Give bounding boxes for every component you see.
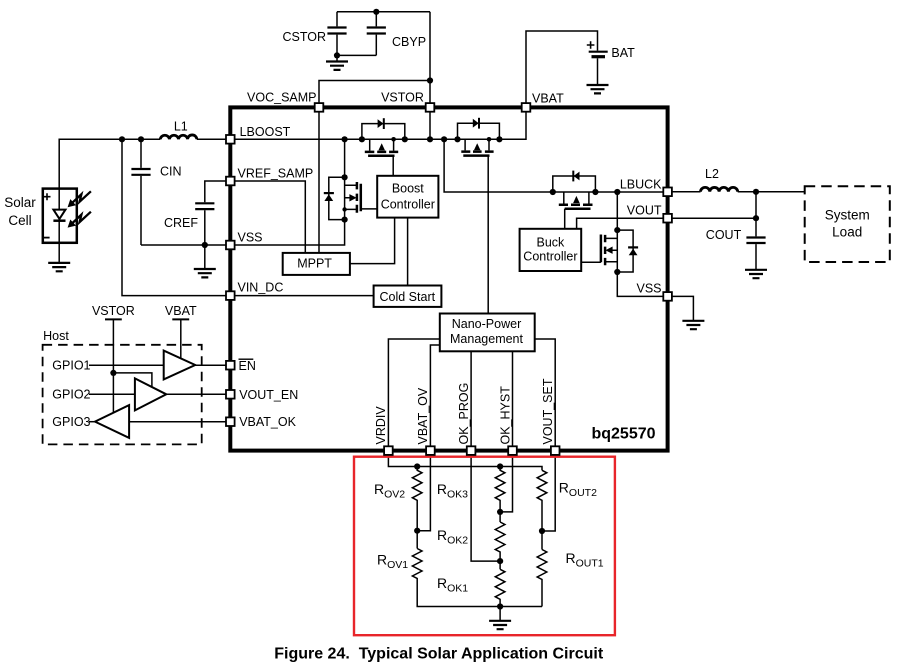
ground resistor network [499, 607, 501, 621]
wire VSS right to ground [668, 296, 694, 320]
pin VSTOR [426, 103, 435, 112]
svg-text:VSS: VSS [238, 231, 263, 245]
buffer U1 GPIO1 [164, 351, 196, 380]
svg-text:LBUCK: LBUCK [620, 177, 662, 191]
buffer U3 GPIO3 [95, 405, 129, 438]
ground below CSTOR [336, 55, 338, 61]
wire VOUT_SET from Nano-Power [535, 339, 556, 531]
wire VBAT_OK pin to buffer [129, 421, 230, 423]
pin EN [226, 361, 235, 370]
wire storage PMOS gate to Nano-Power [487, 156, 489, 314]
solar cell box [43, 189, 77, 243]
svg-text:Host: Host [43, 329, 69, 343]
svg-text:VOUT_SET: VOUT_SET [541, 378, 555, 444]
svg-text:Boost: Boost [392, 182, 424, 196]
host VSTOR supply stub [112, 319, 114, 412]
box MPPT [283, 253, 350, 275]
svg-text:Controller: Controller [381, 197, 435, 211]
svg-text:Buck: Buck [537, 235, 566, 249]
node buck feed junction on rail [441, 136, 447, 142]
ground below BAT [587, 85, 609, 93]
wire buck input feed from rail to LBUCK [444, 139, 667, 192]
svg-text:Cell: Cell [8, 213, 31, 228]
node CBYP top junction [373, 9, 379, 15]
box System Load dashed [805, 186, 890, 262]
pin VREF_SAMP [226, 177, 235, 186]
svg-text:BAT: BAT [611, 46, 635, 60]
solar cell plus sign [44, 193, 51, 200]
pin VBAT_OV [426, 446, 435, 455]
svg-text:Load: Load [832, 224, 862, 239]
wire CSTOR bottom link [337, 54, 376, 56]
transistor buck NMOS Q4 [581, 227, 620, 275]
node COUT top junction [753, 189, 759, 195]
resistor ROK2 [495, 522, 505, 569]
pin VRDIV [384, 446, 393, 455]
pin OK_HYST [508, 446, 517, 455]
wire OK_HYST from Nano-Power [500, 351, 512, 512]
resistor ROK3 [495, 467, 505, 523]
wire OK_PROG from Nano-Power [471, 351, 500, 561]
solar cell minus sign [44, 237, 50, 239]
pin LBUCK [663, 188, 672, 197]
svg-text:VIN_DC: VIN_DC [238, 281, 284, 295]
wire VBAT_OV from Nano-Power [417, 345, 440, 531]
capacitor CSTOR [336, 12, 338, 56]
inductor L2 [701, 187, 738, 191]
svg-text:EN: EN [239, 359, 256, 373]
svg-text:VOUT_EN: VOUT_EN [239, 388, 298, 402]
svg-text:LBOOST: LBOOST [240, 125, 291, 139]
svg-text:VOC_SAMP: VOC_SAMP [247, 91, 316, 105]
wire buck NMOS column to VSS pin [617, 192, 667, 296]
node ROV2 top junction [414, 463, 420, 469]
svg-text:VRDIV: VRDIV [374, 406, 388, 445]
wire VRDIV from Nano-Power [388, 339, 542, 470]
pin VOUT_SET [551, 446, 560, 455]
svg-text:COUT: COUT [706, 228, 742, 242]
box Buck Controller [520, 229, 582, 271]
solar light arrow 2 [68, 212, 91, 228]
solar cell photodiode [58, 189, 60, 243]
svg-text:VBAT: VBAT [532, 92, 564, 106]
svg-text:System: System [825, 207, 870, 222]
transistor buck PMOS Q3 [550, 171, 599, 229]
wire CSTOR/CBYP top rail [337, 11, 430, 13]
svg-text:bq25570: bq25570 [591, 426, 655, 443]
svg-text:Management: Management [450, 332, 523, 346]
node CREF/VSS junction [202, 242, 208, 248]
wire VSTOR to GPIO2 buffer supply [113, 373, 151, 387]
node MPPT switch top on rail [342, 136, 348, 142]
ground below COUT [745, 270, 767, 278]
wire L2 to System Load [738, 191, 805, 193]
node VSTOR rail junction [427, 136, 433, 142]
box Boost Controller [377, 176, 438, 218]
wire VBAT pin to battery [526, 31, 598, 107]
node ROK3/ROK2 junction [497, 509, 503, 515]
svg-text:Controller: Controller [523, 250, 577, 264]
svg-text:Figure 24. Typical Solar Appl: Figure 24. Typical Solar Application Cir… [274, 646, 604, 663]
pin OK_PROG [467, 446, 476, 455]
svg-text:VBAT_OK: VBAT_OK [239, 415, 296, 429]
node ROV2/ROV1 junction [414, 528, 420, 534]
red highlight box [354, 457, 615, 636]
transistor boost sync PMOS Q1 [359, 118, 408, 176]
svg-text:VSTOR: VSTOR [381, 91, 424, 105]
ground below solar cell [58, 243, 60, 263]
pin VOC_SAMP [315, 103, 324, 112]
svg-text:VBAT_OV: VBAT_OV [416, 387, 430, 444]
node CSTOR bottom junction [334, 52, 340, 58]
wire GPIO2 to buffer [89, 393, 135, 395]
svg-text:VREF_SAMP: VREF_SAMP [238, 167, 314, 181]
pin LBOOST [226, 135, 235, 144]
pin VBAT_OK [226, 417, 235, 426]
svg-text:OK_HYST: OK_HYST [498, 386, 512, 445]
node VOC_SAMP/VSTOR junction [427, 77, 433, 83]
wire VOUT to COUT node [668, 217, 756, 219]
svg-text:Cold Start: Cold Start [380, 290, 436, 304]
resistor ROK1 [495, 569, 505, 606]
wire VREF_SAMP to MPPT [230, 181, 305, 253]
svg-text:GPIO1: GPIO1 [52, 358, 90, 372]
node VSTOR branch dot [110, 370, 116, 376]
svg-text:L1: L1 [174, 120, 188, 134]
capacitor COUT [755, 192, 757, 270]
battery BAT [589, 51, 608, 53]
transistor MPPT sampling switch [324, 174, 377, 223]
resistor ROUT2 [537, 470, 547, 549]
svg-text:OK_PROG: OK_PROG [457, 383, 471, 445]
node ROK2/ROK1 junction [497, 558, 503, 564]
svg-text:GPIO3: GPIO3 [52, 415, 90, 429]
pin VOUT_EN [226, 390, 235, 399]
wire VSS left from CIN [141, 244, 230, 246]
resistor ROV1 [412, 549, 542, 607]
svg-text:CBYP: CBYP [392, 35, 426, 49]
capacitor CBYP [375, 12, 377, 56]
svg-text:L2: L2 [705, 167, 719, 181]
inductor L1 [160, 135, 197, 139]
host dashed box [43, 345, 202, 445]
pin VBAT [522, 103, 531, 112]
svg-text:Nano-Power: Nano-Power [452, 317, 521, 331]
svg-text:VSTOR: VSTOR [92, 304, 135, 318]
capacitor CIN [140, 139, 142, 245]
node buck NMOS drain on LBUCK wire [614, 189, 620, 195]
buffer U2 GPIO2 [135, 378, 166, 410]
wire VOC_SAMP drop to MPPT [318, 107, 320, 253]
wire buffer to EN pin [195, 364, 230, 366]
svg-text:GPIO2: GPIO2 [52, 387, 90, 401]
box Cold Start [374, 286, 442, 307]
wire GPIO1 to buffer [89, 364, 164, 366]
wire VSTOR column from top rail to VSTOR pin [429, 12, 431, 108]
pin VSS right [663, 292, 672, 301]
pin VSS left [226, 241, 235, 250]
wire MPPT to Boost Controller [350, 218, 395, 264]
svg-text:CSTOR: CSTOR [282, 30, 326, 44]
host VBAT supply stub [180, 319, 182, 358]
capacitor CREF [205, 181, 231, 269]
node ROUT2/ROUT1 junction [539, 528, 545, 534]
pin VOUT [663, 214, 672, 223]
wire VOC_SAMP to VSTOR node [319, 81, 430, 108]
node ROK3 top junction [497, 463, 503, 469]
diode buck NMOS body diode [617, 230, 638, 272]
svg-text:VOUT: VOUT [627, 203, 662, 217]
svg-text:VSS: VSS [636, 282, 661, 296]
transistor storage PMOS Q2 [454, 118, 502, 156]
wire Boost Controller to Cold Start [407, 218, 409, 286]
svg-text:VBAT: VBAT [165, 304, 197, 318]
node resistor network ground junction [497, 603, 503, 609]
wire VIN_DC branch [122, 139, 374, 295]
resistor ROV2 [412, 467, 422, 549]
wire VSS pin to MPPT switch source [230, 139, 344, 245]
svg-text:CIN: CIN [160, 164, 182, 178]
box Nano-Power Management [440, 314, 535, 352]
ground below CREF [194, 269, 216, 277]
ground below VSS right [682, 321, 704, 329]
wire GPIO3 from buffer [89, 421, 95, 423]
svg-text:MPPT: MPPT [297, 256, 332, 270]
node CIN top junction [138, 136, 144, 142]
resistor ROUT1 [537, 550, 547, 607]
IC bq25570 body [230, 107, 667, 450]
pin VIN_DC [226, 291, 235, 300]
wire VOUT feedback to buck controller [577, 218, 668, 229]
wire LBUCK to L2 [668, 191, 701, 193]
solar light arrow 1 [68, 191, 91, 207]
node VIN_DC branch junction [119, 136, 125, 142]
wire buffer to VOUT_EN pin [166, 393, 230, 395]
svg-text:Solar: Solar [4, 195, 36, 210]
wire main input rail solar to LBOOST to VBAT [59, 107, 526, 188]
wire VSTOR pin drop to rail [429, 107, 431, 139]
node VOUT/COUT junction [753, 215, 759, 221]
svg-text:CREF: CREF [164, 216, 198, 230]
